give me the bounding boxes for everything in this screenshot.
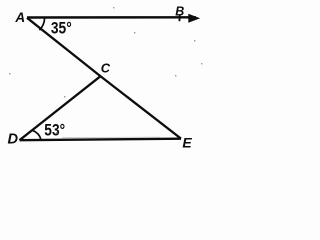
svg-text:C: C (101, 61, 111, 76)
angle arc at D (53 degrees) (32, 130, 41, 140)
svg-text:B: B (175, 5, 184, 19)
tick mark at point B (178, 15, 180, 21)
line A through C to E (27, 18, 181, 139)
segment D to E (bottom line) (20, 139, 182, 141)
svg-text:53°: 53° (44, 122, 65, 140)
scan speckles (9, 7, 202, 134)
angle arc at A (35 degrees) (39, 18, 44, 30)
arrowhead at end of ray AB (188, 14, 200, 23)
svg-text:D: D (8, 131, 19, 147)
scan fuzz above bottom line (62, 136, 160, 138)
segment D to C (20, 76, 101, 140)
ray AB (horizontal line from A toward arrow) (27, 16, 196, 19)
svg-text:E: E (182, 135, 192, 151)
svg-text:35°: 35° (51, 19, 72, 37)
svg-text:A: A (14, 10, 25, 25)
